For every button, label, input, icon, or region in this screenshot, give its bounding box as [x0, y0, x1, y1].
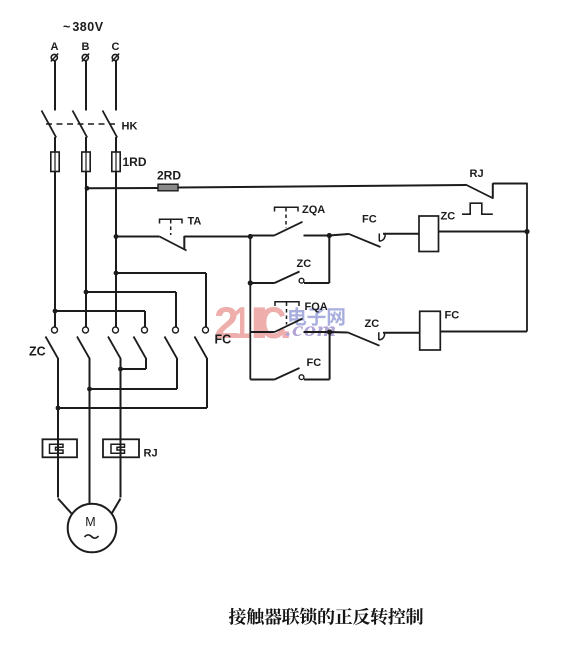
- thermal relay RJ heater 1: [43, 439, 78, 457]
- wire row1 right vertical: [328, 236, 330, 284]
- svg-text:M: M: [85, 515, 95, 529]
- node junction line3/cross1: [118, 367, 123, 372]
- node junction right rail / ZC coil: [524, 229, 529, 234]
- wire node1 to FQA: [250, 331, 274, 333]
- contactor FC main contact 2: [173, 327, 179, 333]
- wire HK pole 3 to fuse 1RD: [115, 137, 117, 152]
- contact FC interlock terminal: [378, 234, 380, 242]
- wire phase C drop to switch: [115, 61, 117, 111]
- contact FC auxiliary NO blade: [275, 368, 300, 380]
- wire node1 to FC aux: [250, 379, 274, 381]
- knife switch HK linkage (dashed): [46, 123, 119, 125]
- wire ZC1 output: [57, 358, 59, 408]
- svg-text:RJ: RJ: [144, 448, 158, 460]
- contact ZC auxiliary terminal: [299, 278, 304, 283]
- wire node2 to FC interlock: [329, 234, 348, 236]
- wire ZC2 output: [89, 358, 91, 389]
- svg-text:ZQA: ZQA: [302, 204, 325, 216]
- svg-text:FC: FC: [362, 214, 377, 226]
- contact ZC interlock NC blade: [348, 332, 380, 345]
- svg-text:ZC: ZC: [365, 318, 380, 330]
- wire heater1 to motor: [58, 499, 72, 514]
- knife switch HK pole 3 blade: [103, 111, 118, 138]
- thermal relay RJ NC contact blade: [466, 185, 494, 199]
- caption 接触器联锁的正反转控制: [229, 608, 246, 625]
- wire RJ to right rail corner: [493, 183, 527, 185]
- svg-text:FC: FC: [445, 310, 460, 322]
- node 3 junction: [327, 329, 332, 334]
- node junction C tap: [114, 271, 119, 276]
- wire FC interlock to ZC coil: [383, 233, 419, 235]
- wire FC4 output to cross1: [145, 358, 147, 369]
- svg-text:TA: TA: [188, 216, 202, 228]
- svg-text:HK: HK: [122, 121, 138, 133]
- wire FC coil to right rail: [440, 331, 527, 333]
- phase terminal B: [82, 54, 88, 60]
- node 1 junction: [248, 234, 253, 239]
- wire FQA to node 3: [304, 331, 330, 333]
- pushbutton FQA NO blade: [275, 319, 303, 332]
- contact ZC auxiliary NO blade: [275, 272, 300, 284]
- pushbutton FQA bracket: [275, 302, 299, 306]
- coil FC: [420, 311, 441, 350]
- svg-text:ZC: ZC: [441, 211, 456, 223]
- pushbutton TA terminal: [183, 236, 185, 249]
- wire phase B drop to switch: [85, 61, 87, 111]
- wire B tap to FC contact 5: [86, 291, 176, 293]
- pushbutton ZQA actuator (dashed): [285, 208, 287, 228]
- contact ZC interlock terminal: [378, 332, 380, 340]
- wire HK pole 2 to fuse 1RD: [85, 137, 87, 152]
- wire FC5 output to cross2: [176, 358, 178, 389]
- wire node1 to ZC aux: [248, 280, 253, 285]
- pushbutton TA bracket: [160, 219, 183, 223]
- wire phase B to ZC contact: [85, 171, 87, 327]
- svg-text:B: B: [82, 41, 90, 53]
- pushbutton FQA actuator (dashed): [286, 303, 288, 325]
- pushbutton TA NC blade: [160, 237, 187, 251]
- svg-text:FQA: FQA: [305, 301, 328, 313]
- wire node1 to ZQA: [250, 235, 274, 237]
- contactor ZC main contact 3: [113, 327, 119, 333]
- pushbutton ZQA bracket: [275, 207, 299, 211]
- thermal relay RJ heater 2: [103, 439, 139, 457]
- contactor FC main contact 3: [203, 327, 209, 333]
- wire C tap to FC contact 6: [116, 272, 206, 274]
- svg-text:ZC: ZC: [29, 345, 46, 359]
- svg-text:ZC: ZC: [297, 258, 312, 270]
- thermal relay RJ contact terminal: [492, 183, 494, 197]
- svg-text:FC: FC: [307, 357, 322, 369]
- svg-text:C: C: [112, 41, 120, 53]
- svg-text:RJ: RJ: [470, 168, 484, 180]
- wire phase A drop to switch: [54, 61, 56, 111]
- wire ZQA to node 2: [304, 235, 330, 237]
- fuse 1RD element 3: [115, 151, 117, 172]
- wire FC6 output to cross3: [206, 358, 208, 408]
- wire C to TA: [114, 234, 119, 239]
- svg-text:A: A: [51, 41, 59, 53]
- knife switch HK pole 1 blade: [42, 111, 57, 138]
- svg-text:2RD: 2RD: [157, 169, 181, 183]
- coil ZC: [419, 216, 439, 252]
- wire row2 right vertical: [329, 332, 331, 380]
- contact FC auxiliary terminal: [299, 375, 304, 380]
- wire right rail: [526, 183, 528, 332]
- wire phase C to ZC contact: [115, 171, 117, 327]
- node junction B tap: [84, 290, 89, 295]
- node junction A tap: [53, 309, 58, 314]
- fuse 1RD element 2: [85, 151, 87, 172]
- pushbutton ZQA NO blade: [275, 222, 303, 236]
- wire TA to node 1: [184, 236, 250, 238]
- svg-text:~ 380V: ~ 380V: [63, 20, 104, 34]
- wire node3 to ZC interlock: [330, 331, 348, 334]
- svg-text:1RD: 1RD: [123, 155, 147, 169]
- contactor ZC main contact 1: [52, 327, 58, 333]
- wire HK pole 1 to fuse 1RD: [54, 137, 56, 152]
- node junction B / control wire: [85, 186, 90, 191]
- contactor ZC main contact 2: [83, 327, 89, 333]
- wire A tap to FC contact 4: [55, 310, 145, 312]
- contact FC interlock NC blade: [349, 234, 381, 247]
- node junction line1/cross3: [56, 406, 61, 411]
- wire heater2 to motor: [112, 499, 121, 514]
- thermal relay RJ actuator bump: [462, 203, 493, 214]
- wire ZC aux to right vertical: [304, 282, 329, 284]
- node 2 junction: [327, 233, 332, 238]
- wire B to fuse 2RD: [86, 187, 158, 189]
- wire control left vertical: [249, 237, 251, 380]
- motor M: [68, 504, 117, 553]
- wire 2RD to RJ contact: [178, 185, 466, 188]
- phase terminal C: [112, 54, 118, 60]
- wire ZC coil to right rail: [439, 231, 528, 233]
- phase terminal A: [51, 54, 57, 60]
- wire motor line 1: [57, 408, 59, 498]
- knife switch HK pole 2 blade: [73, 111, 88, 138]
- wire FC aux to right vertical: [304, 379, 330, 381]
- fuse 1RD element 1: [54, 151, 56, 172]
- wire phase A to ZC contact: [54, 171, 56, 327]
- fuse 2RD: [158, 184, 178, 191]
- node junction line2/cross2: [87, 387, 92, 392]
- contactor FC main contact 1: [142, 327, 148, 333]
- wire motor line 2: [89, 389, 91, 505]
- svg-text:FC: FC: [215, 333, 232, 347]
- wire ZC interlock to FC coil: [383, 332, 420, 334]
- wire motor line 3: [120, 369, 122, 498]
- wire ZC3 output: [120, 358, 122, 369]
- pushbutton TA actuator (dashed): [170, 220, 172, 235]
